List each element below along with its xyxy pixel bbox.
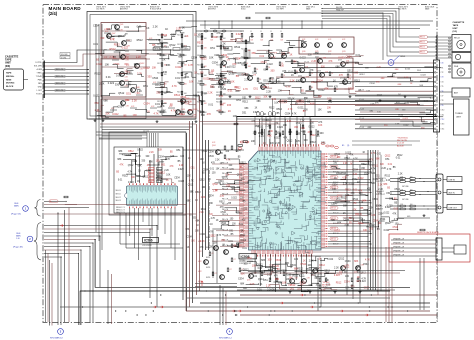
svg-text:C534: C534 — [363, 263, 369, 266]
svg-text:Q5010: Q5010 — [193, 109, 198, 111]
svg-text:10K: 10K — [201, 114, 206, 117]
wire from IC top pin — [274, 124, 276, 147]
svg-text:R: R — [201, 31, 203, 33]
svg-text:4.7K: 4.7K — [171, 110, 176, 113]
svg-text:L OUT: L OUT — [37, 90, 43, 92]
svg-text:Q541: Q541 — [212, 145, 216, 147]
svg-text:1K: 1K — [410, 83, 413, 85]
capacitor oval on bus — [268, 112, 271, 116]
svg-text:R512: R512 — [353, 199, 359, 201]
svg-text:Q512: Q512 — [360, 220, 366, 222]
svg-text:4.7K: 4.7K — [131, 106, 135, 108]
svg-text:D51: D51 — [125, 99, 130, 102]
svg-text:B5: B5 — [238, 156, 241, 158]
svg-text:10K: 10K — [184, 55, 187, 57]
connector CN505 remote — [436, 174, 443, 213]
svg-text:2.2K: 2.2K — [300, 119, 305, 122]
wire vertical bundle — [199, 96, 201, 291]
wire pair y273 — [240, 272, 400, 274]
svg-text:R512: R512 — [137, 39, 144, 42]
wire stub — [168, 107, 175, 109]
svg-text:CT3: CT3 — [441, 77, 444, 79]
svg-text:68K: 68K — [371, 183, 376, 185]
pin bottom 12 — [280, 250, 281, 254]
svg-text:AUX IN: AUX IN — [449, 191, 456, 194]
svg-text:C534: C534 — [174, 177, 180, 179]
resistor mid cluster — [239, 268, 241, 272]
svg-text:B5: B5 — [116, 171, 120, 173]
junction — [304, 294, 305, 295]
svg-text:R512: R512 — [216, 92, 220, 94]
svg-text:4.7K: 4.7K — [266, 83, 270, 85]
svg-text:0.01: 0.01 — [394, 208, 399, 210]
wire below IC506 — [157, 208, 159, 230]
resistor mid cluster — [231, 258, 233, 262]
svg-text:GND: GND — [38, 87, 43, 89]
svg-text:UNIT: UNIT — [453, 28, 459, 30]
wire vertical bundle — [192, 121, 194, 303]
ground — [94, 119, 96, 120]
svg-text:REC B: REC B — [420, 42, 425, 44]
svg-text:4.7K: 4.7K — [348, 78, 352, 80]
svg-text:68K: 68K — [161, 110, 166, 113]
svg-text:2.2K: 2.2K — [153, 25, 158, 28]
svg-text:CASSETTE: CASSETTE — [453, 21, 465, 24]
transistor Q531 — [219, 80, 224, 85]
resistor array RA1 — [149, 171, 155, 173]
pin left 21 — [245, 215, 249, 216]
svg-text:BLOCK: BLOCK — [6, 86, 14, 88]
wire to IC left pin — [212, 214, 245, 216]
wire fan 1 — [100, 126, 192, 128]
svg-text:4.7K: 4.7K — [220, 196, 225, 198]
svg-text:R512: R512 — [157, 63, 161, 65]
svg-text:REC B: REC B — [420, 52, 425, 54]
svg-text:0.022: 0.022 — [231, 198, 237, 200]
resistor bias — [329, 72, 331, 76]
svg-text:D51: D51 — [263, 79, 268, 82]
svg-text:0.022: 0.022 — [384, 230, 390, 232]
wire from IC right pin — [328, 194, 368, 196]
pin left 5 — [245, 174, 249, 175]
svg-text:4.7K: 4.7K — [105, 31, 109, 33]
pin right 29 — [321, 225, 325, 226]
wire from IC right pin — [328, 184, 368, 186]
svg-text:1K: 1K — [350, 75, 352, 77]
pin 13 CN504 — [434, 119, 436, 121]
wire right band row — [360, 116, 433, 118]
resistor bias — [281, 74, 283, 78]
svg-text:C534: C534 — [144, 103, 151, 106]
svg-text:CT-3.3: CT-3.3 — [359, 118, 364, 120]
svg-text:(2/4): (2/4) — [49, 11, 58, 16]
svg-text:Q512: Q512 — [385, 223, 391, 225]
pin right 13 — [321, 184, 325, 185]
svg-text:REC B: REC B — [420, 37, 425, 39]
svg-text:330: 330 — [163, 71, 168, 74]
pin right 16 — [321, 192, 325, 193]
pin left 10 — [245, 186, 249, 187]
pin bottom 17 — [293, 250, 294, 254]
svg-text:1K: 1K — [255, 107, 258, 109]
pin 15 CN504 — [434, 128, 436, 130]
pin top 15 — [295, 147, 296, 151]
pin label box left — [239, 233, 243, 235]
pin left 11 — [245, 189, 249, 190]
svg-text:C534: C534 — [235, 151, 241, 153]
svg-text:100: 100 — [131, 177, 136, 179]
svg-text:47K: 47K — [207, 113, 212, 116]
resistor bottom cluster — [261, 272, 263, 276]
red pin number IC506 — [154, 183, 155, 185]
svg-text:10K: 10K — [225, 175, 229, 177]
svg-text:R512: R512 — [201, 209, 207, 211]
wire from IC right pin — [328, 189, 370, 191]
transistor Q501 — [115, 25, 120, 30]
pin top 5 — [269, 147, 270, 151]
ground — [102, 119, 104, 120]
svg-text:100: 100 — [244, 263, 249, 266]
svg-text:68K: 68K — [187, 200, 191, 202]
svg-text:4.7K: 4.7K — [328, 39, 332, 41]
pin bottom 24 — [311, 250, 312, 254]
wire bus to IC top pin — [289, 117, 291, 146]
transistor Q537 — [318, 59, 323, 64]
svg-text:2.2K: 2.2K — [199, 212, 204, 214]
svg-text:0.01: 0.01 — [258, 283, 263, 286]
svg-text:4.7K: 4.7K — [321, 289, 326, 292]
svg-text:SOLD: SOLD — [241, 9, 246, 11]
svg-text:1K: 1K — [147, 111, 150, 114]
pin label box left — [239, 181, 243, 183]
junction — [235, 310, 236, 311]
svg-text:4.7K: 4.7K — [212, 142, 216, 144]
label box wire name — [55, 75, 65, 78]
pin left 33 — [245, 246, 249, 247]
resistor bottom cluster — [276, 278, 278, 282]
svg-text:68K: 68K — [331, 220, 336, 222]
pin top 11 — [285, 147, 286, 151]
pin left 1 — [245, 163, 249, 164]
pin right 36 — [321, 243, 325, 244]
bus thick y116 — [237, 116, 437, 118]
bus wire bottom — [60, 306, 430, 308]
svg-text:10K: 10K — [230, 80, 235, 83]
svg-text:1K: 1K — [216, 220, 219, 222]
svg-text:Q512: Q512 — [210, 236, 216, 238]
svg-text:4.7: 4.7 — [215, 273, 217, 275]
svg-text:C534: C534 — [394, 189, 400, 191]
wire drop from bus up — [272, 99, 274, 117]
svg-text:100: 100 — [232, 224, 236, 226]
transistor Q542 — [214, 246, 219, 251]
svg-text:Q5011: Q5011 — [181, 109, 186, 111]
bus wire bottom — [200, 302, 430, 304]
block TUNER UNIT — [454, 99, 470, 135]
svg-text:REMOTE JACK BOARD: REMOTE JACK BOARD — [417, 231, 439, 234]
svg-text:4.7: 4.7 — [234, 259, 236, 261]
pin circle CN505 1 — [438, 178, 441, 181]
ground — [334, 291, 336, 292]
IC508 internal circuitry — [251, 155, 326, 252]
junction — [151, 302, 152, 303]
boxed label AUX IN — [447, 190, 462, 195]
ground — [195, 120, 197, 121]
svg-text:R: R — [271, 31, 273, 33]
svg-text:B5: B5 — [170, 152, 174, 154]
svg-text:Q512: Q512 — [255, 98, 261, 100]
wire from IC right pin — [328, 204, 368, 206]
svg-text:47K: 47K — [219, 95, 224, 98]
bus wire bottom — [95, 287, 410, 289]
svg-text:10K: 10K — [184, 84, 187, 86]
svg-text:47K: 47K — [296, 140, 301, 143]
wire to CN504 pin — [355, 109, 434, 111]
wire header tick — [150, 133, 152, 147]
resistor bias — [347, 74, 349, 78]
bus wire bottom — [240, 294, 437, 296]
svg-text:SPEAKER L-CH: SPEAKER L-CH — [393, 238, 404, 241]
svg-text:C534: C534 — [281, 270, 287, 273]
svg-text:2.2K: 2.2K — [137, 90, 142, 93]
pin bottom 5 — [262, 250, 263, 254]
pin label box left — [239, 174, 243, 176]
svg-text:R: R — [281, 31, 283, 33]
svg-text:PB L-CH: PB L-CH — [222, 219, 228, 221]
svg-text:1.5K: 1.5K — [400, 189, 403, 191]
svg-text:100: 100 — [156, 161, 161, 163]
svg-text:SW 2.5: SW 2.5 — [331, 238, 336, 240]
wire from IC top pin — [300, 124, 302, 147]
wire stub — [110, 109, 117, 111]
svg-text:4.7K: 4.7K — [128, 171, 133, 173]
wire connector row — [45, 69, 72, 71]
svg-text:C534: C534 — [118, 105, 125, 108]
svg-text:B5: B5 — [277, 113, 281, 115]
wire vertical right — [419, 258, 421, 310]
wire drop brown staircase — [65, 205, 186, 312]
svg-text:0.022: 0.022 — [241, 240, 247, 242]
block remote jack — [454, 245, 466, 254]
transistor Q521 — [315, 43, 320, 48]
wire top rail 4 — [210, 28, 420, 30]
capacitor oval on bus — [260, 112, 263, 116]
wire to IC left pin — [212, 240, 245, 242]
bus arrow — [153, 306, 156, 308]
pin left 15 — [245, 199, 249, 200]
junction — [371, 294, 372, 295]
svg-text:4.7K: 4.7K — [227, 59, 231, 61]
transistor Q523 — [342, 43, 347, 48]
pin label box left — [239, 210, 243, 212]
wire to IC left pin — [220, 245, 245, 247]
wire from IC bottom pin — [269, 254, 271, 280]
svg-text:10K: 10K — [204, 38, 207, 40]
svg-text:R512: R512 — [238, 62, 245, 65]
svg-text:WF602 1 2 3: WF602 1 2 3 — [116, 212, 125, 214]
wire connector row — [45, 62, 72, 64]
svg-text:CT-3.3: CT-3.3 — [359, 127, 364, 129]
svg-text:C534: C534 — [353, 170, 359, 172]
block PB head — [452, 63, 471, 78]
svg-text:10K: 10K — [278, 89, 283, 92]
svg-text:2.2K: 2.2K — [149, 152, 154, 154]
svg-text:(Page 48): (Page 48) — [13, 247, 23, 249]
pin label box left — [239, 171, 243, 173]
pin top 6 — [272, 147, 273, 151]
IC U506 LCD driver — [126, 186, 177, 206]
label box wire name — [55, 89, 65, 92]
pin left 19 — [245, 210, 249, 211]
svg-text:C534: C534 — [93, 25, 100, 28]
wire to CN504 pin — [300, 62, 434, 64]
svg-text:4.7K: 4.7K — [125, 77, 129, 79]
svg-text:68K: 68K — [178, 82, 183, 85]
pin top 3 — [264, 147, 265, 151]
svg-text:CT1: CT1 — [441, 67, 444, 69]
svg-text:R: R — [251, 31, 253, 33]
wire to IC left pin — [228, 199, 245, 201]
svg-text:3: 3 — [60, 330, 62, 334]
boxed label row A — [60, 53, 70, 56]
svg-text:D51: D51 — [176, 150, 181, 152]
svg-text:100: 100 — [253, 132, 258, 135]
wire right mid row — [352, 144, 412, 146]
svg-text:Q523: Q523 — [342, 51, 346, 53]
pin left 7 — [245, 179, 249, 180]
svg-text:4.7K: 4.7K — [295, 278, 299, 280]
svg-text:C534: C534 — [158, 157, 164, 159]
capacitor C590 — [420, 229, 425, 231]
wire right band row — [360, 125, 433, 127]
resistor R565 — [289, 131, 291, 135]
pin 11 CN504 — [434, 109, 436, 111]
connector top right pins — [436, 35, 438, 60]
wire left edge of IC box — [236, 116, 238, 152]
svg-text:68K: 68K — [327, 112, 332, 114]
svg-text:10K: 10K — [209, 57, 214, 60]
pin top 20 — [308, 147, 309, 151]
wire from IC bottom pin — [295, 254, 297, 280]
svg-text:SET GND: SET GND — [402, 199, 410, 201]
wire from IC top pin — [284, 119, 286, 147]
block inner rect — [102, 82, 146, 119]
svg-text:10K: 10K — [164, 74, 167, 76]
wire vertical brown far right — [388, 247, 390, 322]
connector CN501 cassette bus bar — [43, 61, 45, 99]
pin left 6 — [245, 176, 249, 177]
svg-text:100: 100 — [310, 122, 315, 125]
svg-text:4.7K: 4.7K — [419, 117, 424, 119]
jumper JW501 with page arrow — [388, 60, 394, 66]
ground — [404, 95, 406, 96]
wire IC506 top pin — [135, 154, 137, 183]
page ref 2 wires — [44, 225, 157, 227]
svg-text:1K: 1K — [182, 26, 185, 29]
wire stub — [104, 32, 111, 34]
svg-text:CT9: CT9 — [441, 105, 444, 107]
svg-text:4.7K: 4.7K — [217, 235, 222, 237]
svg-text:10K: 10K — [204, 84, 207, 86]
svg-text:C534: C534 — [221, 223, 227, 225]
pin label box left — [239, 230, 243, 232]
pin right 17 — [321, 194, 325, 195]
cluster interconnect wires — [324, 270, 338, 273]
svg-text:68K: 68K — [188, 109, 193, 112]
resistor network RN502 — [173, 48, 180, 51]
svg-text:TAPE: TAPE — [453, 24, 459, 27]
svg-text:68K: 68K — [263, 69, 268, 72]
wire capsule row 1 — [278, 101, 435, 103]
svg-text:B5: B5 — [301, 89, 305, 92]
red pin number IC506 — [143, 183, 144, 185]
transistor Q573 — [356, 266, 361, 271]
wire to REC amp block — [72, 86, 89, 88]
svg-text:330: 330 — [294, 126, 299, 129]
svg-text:MAIN: MAIN — [14, 204, 19, 207]
wire vertical right of IC — [352, 160, 354, 299]
wire drop to bus — [99, 236, 101, 288]
ground — [249, 95, 251, 96]
svg-text:(Page 53): (Page 53) — [11, 214, 21, 216]
svg-text:10K: 10K — [223, 94, 226, 96]
wire remote row — [300, 251, 436, 253]
wire drop to bus — [149, 229, 151, 298]
wire bus to IC top pin — [274, 117, 276, 146]
svg-text:0.01: 0.01 — [258, 267, 263, 270]
svg-text:R: R — [241, 31, 243, 33]
wire from IC right pin — [328, 199, 370, 201]
svg-text:4.7K: 4.7K — [229, 169, 234, 171]
svg-text:R512: R512 — [157, 73, 161, 75]
svg-text:1K: 1K — [343, 213, 346, 215]
transistor Q541 — [216, 150, 221, 155]
svg-text:68K: 68K — [252, 52, 257, 55]
svg-text:1K: 1K — [282, 63, 284, 65]
wire connector row — [45, 83, 72, 85]
resistor R560 — [254, 131, 256, 135]
transistor Q534 — [282, 54, 287, 59]
pin bottom 16 — [290, 250, 291, 254]
wire vertical brown far right — [385, 247, 387, 322]
red pin number IC506 — [147, 183, 148, 185]
svg-text:Q512: Q512 — [188, 184, 194, 186]
wire from IC right pin — [328, 215, 368, 217]
svg-text:IC506: IC506 — [144, 239, 153, 243]
svg-text:REC L-CH: REC L-CH — [56, 90, 63, 92]
pin top 7 — [274, 147, 275, 151]
red pin number IC506 — [140, 183, 141, 185]
wire to IC left pin — [228, 173, 245, 175]
svg-text:D51: D51 — [263, 279, 268, 282]
svg-text:C534: C534 — [398, 115, 404, 117]
wire capsule row 2 — [290, 104, 420, 106]
svg-text:4.7K: 4.7K — [307, 278, 311, 280]
wire bus to IC top pin — [302, 117, 304, 146]
wire drop from bus up — [291, 99, 293, 117]
svg-text:D51: D51 — [378, 192, 383, 194]
svg-text:4.7K: 4.7K — [126, 60, 130, 62]
transistor Q5011 — [176, 110, 181, 115]
svg-text:68K: 68K — [337, 223, 342, 225]
block outline red channel L — [101, 23, 146, 57]
svg-text:SW 2.5: SW 2.5 — [331, 208, 336, 210]
svg-text:Q512: Q512 — [142, 176, 148, 178]
svg-text:MUTE: MUTE — [206, 257, 210, 259]
svg-text:PB-B: PB-B — [454, 66, 459, 68]
resistor R531 capsule — [204, 30, 208, 32]
resistor bias — [334, 88, 336, 92]
